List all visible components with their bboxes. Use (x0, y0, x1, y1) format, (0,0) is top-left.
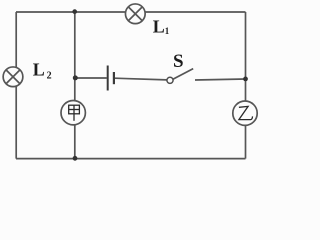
svg-text:S: S (173, 51, 184, 72)
svg-text:L: L (33, 60, 45, 80)
svg-text:2: 2 (47, 71, 52, 82)
svg-text:1: 1 (165, 26, 170, 36)
svg-text:L: L (153, 17, 165, 37)
